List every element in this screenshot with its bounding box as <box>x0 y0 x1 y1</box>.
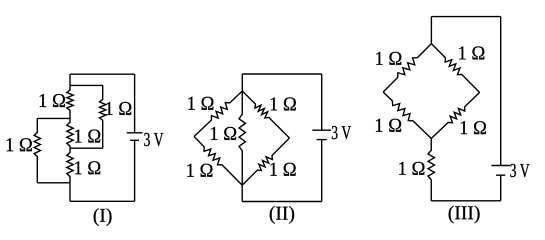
resistor R14 1Ω (bottom-right arm) <box>431 93 479 139</box>
wire I inner top <box>70 84 103 86</box>
wire I loop bottom <box>37 182 70 184</box>
label R6 value <box>188 97 213 110</box>
wire III right upper <box>500 17 502 166</box>
label R10 value <box>211 127 236 140</box>
battery BT2 3V <box>312 130 331 139</box>
resistor R9 1Ω (bottom-right arm) <box>242 138 289 185</box>
wire I top <box>70 73 135 75</box>
resistor R7 1Ω (bottom-left arm) <box>194 137 242 186</box>
resistor R11 1Ω (top-left arm) <box>383 44 431 92</box>
resistor R6 1Ω (top-left arm) <box>194 91 242 137</box>
wire I loop top <box>37 117 70 119</box>
label R12 value <box>459 46 484 59</box>
label R11 value <box>376 52 401 65</box>
resistor R4 1Ω <box>67 148 73 183</box>
wire I bottom <box>70 200 135 202</box>
label R2 value <box>106 102 131 115</box>
wire I right lower <box>134 141 136 201</box>
wire I left top segment <box>69 74 71 85</box>
label R8 value <box>271 97 296 110</box>
resistor R2 1Ω <box>100 85 106 148</box>
label BT3 value <box>510 164 529 177</box>
label R4 value <box>75 161 100 174</box>
resistor R5 1Ω <box>34 118 40 182</box>
wire III top <box>431 16 500 18</box>
wire II right upper <box>321 74 323 130</box>
wire II node B drop <box>241 185 243 201</box>
battery BT3 3V <box>491 166 510 176</box>
label BT1 value <box>144 133 163 146</box>
resistor R10 1Ω (middle) <box>239 91 245 185</box>
label caption (III) <box>449 206 480 224</box>
resistor R12 1Ω (top-right arm) <box>431 44 479 93</box>
wire III bottom <box>431 200 501 202</box>
resistor R13 1Ω (bottom-left arm) <box>383 92 431 139</box>
label BT2 value <box>332 126 351 139</box>
label R1 value <box>40 94 65 107</box>
label caption (II) <box>270 206 294 224</box>
wire III node T riser <box>430 17 432 44</box>
wire II node T riser <box>241 74 243 91</box>
label R15 value <box>399 162 424 175</box>
label R14 value <box>461 121 486 134</box>
label R5 value <box>7 138 32 151</box>
wire II bottom <box>242 201 322 203</box>
resistor R1 1Ω <box>67 85 73 118</box>
wire II top <box>242 73 321 75</box>
wire I inner bottom <box>70 147 103 149</box>
resistor R3 1Ω <box>67 118 73 148</box>
battery BT1 3V <box>127 133 143 141</box>
label R13 value <box>376 119 401 132</box>
label caption (I) <box>94 208 112 226</box>
wire II right lower <box>321 140 323 201</box>
label R3 value <box>75 130 100 143</box>
resistor R15 1Ω (bottom) <box>428 139 434 201</box>
wire I right upper <box>134 74 136 132</box>
resistor R8 1Ω (top-right arm) <box>242 91 289 138</box>
label R7 value <box>187 164 212 177</box>
wire I left lower segment <box>69 183 71 202</box>
wire III right lower <box>500 176 502 201</box>
label R9 value <box>270 163 295 176</box>
